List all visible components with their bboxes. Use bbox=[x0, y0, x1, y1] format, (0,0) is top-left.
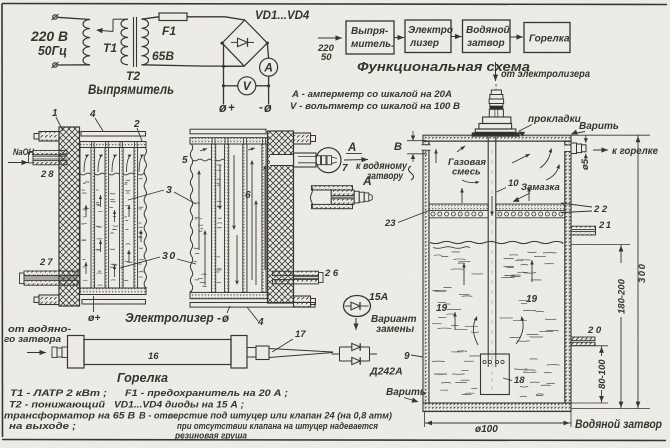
tank left wall bbox=[423, 141, 429, 403]
right unit bottom plate bbox=[190, 303, 315, 308]
pipe stub 20 bbox=[571, 337, 595, 340]
flange plate bbox=[475, 129, 516, 132]
dimension 180-200 bbox=[620, 245, 622, 264]
voltmeter right wire bbox=[256, 85, 269, 87]
phi leader right unit bbox=[227, 306, 230, 313]
torch inlet barb bbox=[52, 347, 57, 358]
gasket (black) - prokladki bbox=[472, 132, 520, 136]
inlet arrow down bbox=[495, 62, 497, 81]
left unit top gasket strip bbox=[80, 142, 146, 148]
torch needle tip bbox=[269, 349, 333, 353]
extension line tube20 bottom bbox=[571, 345, 608, 347]
tank bottom bbox=[423, 403, 571, 412]
right unit cell side walls bbox=[190, 144, 192, 292]
bridge rectifier VD1...VD4 bbox=[222, 20, 267, 66]
block Electrolizer bbox=[405, 20, 451, 53]
arrow block3-block4 bbox=[510, 36, 523, 38]
wire bridge right to ammeter bbox=[267, 43, 268, 58]
perforated plate pos 22/23 bbox=[429, 204, 488, 211]
extension line inner bottom bbox=[571, 402, 608, 404]
water dashes right bbox=[511, 275, 521, 277]
dimension phi100 bbox=[424, 412, 426, 427]
torch nozzle bbox=[247, 348, 256, 358]
autotransformer T1 winding bbox=[83, 20, 90, 65]
hole B in left wall bbox=[422, 145, 431, 150]
left unit liquid arrows bbox=[85, 205, 87, 217]
gas space arrows bbox=[435, 149, 437, 163]
left bottom bolt bbox=[39, 295, 59, 305]
T2 core bbox=[133, 17, 135, 67]
gas outlet fitting pos 7 with detail circle A bbox=[270, 155, 294, 166]
block Gorelka bbox=[524, 23, 570, 53]
water dashes left bbox=[443, 286, 451, 288]
input arrow 220/50 bbox=[318, 37, 342, 39]
left unit top plate (pos 4) bbox=[81, 132, 146, 137]
wire secondary top to fuse bbox=[142, 17, 160, 19]
extension line lid top bbox=[571, 134, 650, 136]
dimension B ticks bbox=[407, 140, 427, 142]
brace squiggle bbox=[409, 166, 414, 180]
right unit top plate (pos 4) bbox=[190, 129, 266, 134]
terminal: 220V input lower bbox=[53, 63, 57, 67]
water surface wavy line bbox=[430, 241, 563, 243]
torch body pos 16 bbox=[84, 340, 231, 365]
pipe stub 26 lower right bbox=[273, 271, 319, 275]
up arrows through plate bbox=[461, 188, 463, 203]
right bottom bolt bbox=[294, 296, 311, 307]
left unit electrolyte (dashes + level) bbox=[81, 173, 91, 175]
wire bridge bottom to plus rail bbox=[224, 65, 245, 67]
dimension 80-100 bbox=[601, 346, 603, 356]
extension line waterline bbox=[571, 244, 630, 246]
right top bolt bbox=[294, 133, 311, 144]
pipe stub 27 lower bbox=[24, 271, 78, 276]
torch left collar bbox=[68, 336, 85, 369]
arrow block1-block2 bbox=[394, 37, 404, 39]
voltmeter left wire bbox=[224, 85, 238, 87]
block Vodyanoy zatvor bbox=[463, 20, 511, 53]
left unit cell side walls bbox=[79, 148, 81, 289]
left unit gas arrows bbox=[84, 155, 89, 172]
right unit electrode plates bbox=[212, 144, 216, 292]
fuse F1 bbox=[159, 13, 187, 21]
inlet hose barb stack bbox=[491, 90, 501, 95]
diffuser box pos 18 bbox=[481, 354, 510, 395]
right unit top small arrows bbox=[200, 149, 207, 152]
tank right wall bbox=[565, 141, 571, 403]
gas outlet stub to torch bbox=[564, 145, 571, 152]
right unit circulation arrows up bbox=[198, 175, 200, 250]
plus rail wire bbox=[223, 43, 225, 104]
T1 wiper arrow bbox=[99, 30, 113, 31]
right unit top gasket strip bbox=[190, 138, 268, 144]
pipe stub 21 bbox=[571, 226, 596, 229]
arrow block2-block3 bbox=[451, 36, 462, 38]
ammeter A bbox=[260, 58, 278, 76]
dimension phi5 bbox=[585, 135, 587, 143]
pipe stub 28 upper bbox=[33, 151, 67, 155]
minus rail wire bbox=[268, 76, 270, 104]
page border frame bbox=[2, 4, 667, 5]
left unit bottom plate bbox=[82, 300, 146, 305]
replacement diode 15A in circle bbox=[344, 296, 371, 317]
tank lid bbox=[423, 135, 571, 141]
T2 secondary winding bbox=[142, 19, 149, 65]
left top bolt bbox=[39, 132, 59, 142]
tube down arrows bbox=[491, 196, 493, 216]
electrolyzer right end block (pos 9-ish) bbox=[268, 131, 294, 303]
extension line bottom bbox=[571, 408, 650, 410]
wire secondary bottom to bridge bbox=[142, 65, 206, 66]
arrow into torch bbox=[27, 352, 46, 354]
bridge diode symbol bbox=[231, 41, 238, 43]
block Vypryamitel bbox=[346, 21, 394, 54]
top flange nut bbox=[483, 117, 511, 124]
terminal phi+ leader (left unit) bbox=[93, 296, 95, 312]
electrolyzer left end block (pos 1) bbox=[59, 127, 80, 306]
terminal: 220V input upper bbox=[53, 15, 57, 19]
right unit bottom gasket strip bbox=[190, 292, 268, 298]
arrow to vodyanomu zatvoru bbox=[344, 159, 368, 162]
water up arrows bbox=[463, 263, 465, 285]
dimension 300 bbox=[637, 135, 639, 408]
left unit bottom gasket strip bbox=[80, 288, 146, 295]
left unit electrode plates (pos 3) bbox=[91, 148, 95, 289]
torch right collar bbox=[231, 336, 247, 369]
wire fuse to bridge top bbox=[187, 16, 225, 18]
transformer T2 primary winding bbox=[121, 19, 128, 65]
parallel diodes D242A bbox=[332, 353, 340, 355]
arrow variant zameny bbox=[355, 318, 357, 330]
voltmeter V bbox=[238, 77, 256, 95]
central tube bbox=[487, 137, 489, 354]
right unit electrolyte bbox=[193, 159, 212, 161]
right unit circulation arrows down bbox=[233, 155, 235, 225]
arrow k gorelke bbox=[593, 149, 608, 151]
